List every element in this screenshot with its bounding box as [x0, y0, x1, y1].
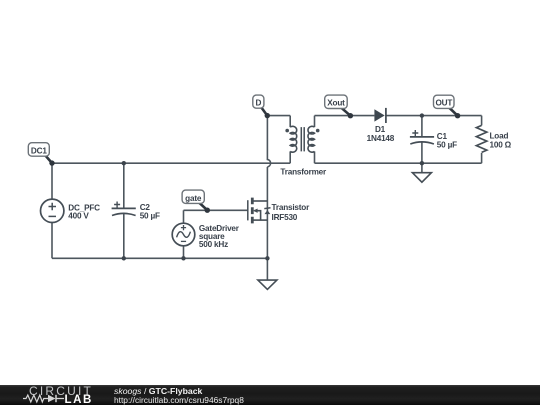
- transistor body diode cathode bar: [264, 207, 270, 210]
- wire GateDriver top lead: [183, 210, 185, 223]
- wire drain net lower: [266, 167, 268, 258]
- value label DC_PFC 400 V: [68, 204, 100, 221]
- diode D1 triangle: [374, 109, 384, 121]
- transistor Q IRF530 NMOS: [248, 198, 268, 224]
- wire ground stem left: [266, 258, 268, 280]
- wire Xout net: [315, 115, 375, 117]
- wire secondary top lead: [314, 116, 316, 128]
- capacitor C1: [410, 130, 434, 144]
- capacitor C2: [112, 202, 136, 216]
- svg-text:100 Ω: 100 Ω: [490, 140, 512, 149]
- wire GateDriver bottom lead: [183, 246, 185, 259]
- wire DC_PFC top lead: [51, 163, 53, 199]
- svg-text:IRF530: IRF530: [272, 213, 298, 222]
- value label C2 50 uF: [140, 203, 160, 221]
- wire Load top lead: [481, 116, 483, 126]
- transistor body diode triangle: [265, 210, 271, 214]
- wire C1 top lead: [421, 116, 423, 137]
- svg-text:Transformer: Transformer: [280, 167, 327, 176]
- transformer primary coil: [290, 126, 297, 152]
- node OUT: [434, 95, 461, 118]
- footer bar: [0, 385, 540, 405]
- wire drain net upper with hop: [267, 116, 270, 167]
- footer logo CIRCUIT: [29, 384, 93, 398]
- footer url: [114, 395, 244, 405]
- wire ground stem right: [421, 163, 423, 173]
- transformer core: [301, 127, 304, 151]
- svg-text:D: D: [256, 98, 262, 107]
- svg-text:DC1: DC1: [31, 146, 47, 155]
- wire secondary bottom rail: [315, 162, 482, 164]
- node gate: [182, 190, 210, 213]
- svg-text:gate: gate: [185, 194, 202, 203]
- node DC1: [28, 143, 54, 166]
- wire DC_PFC bottom lead: [51, 223, 53, 259]
- svg-text:D1: D1: [375, 125, 386, 134]
- svg-text:1N4148: 1N4148: [367, 134, 395, 143]
- value label GateDriver square 500 kHz: [199, 224, 240, 249]
- wire primary top lead: [289, 116, 291, 128]
- svg-text:50 µF: 50 µF: [437, 141, 457, 150]
- ground right: [412, 173, 431, 183]
- transformer primary phase dot: [285, 129, 289, 133]
- wire node D to primary top: [267, 115, 290, 117]
- value label D1 1N4148: [367, 125, 395, 143]
- footer logo squiggle: [23, 393, 65, 404]
- transformer secondary phase dot: [316, 129, 320, 133]
- diode D1 cathode bar: [385, 108, 387, 123]
- wire bottom ground rail: [52, 257, 267, 259]
- footer logo LAB: [65, 394, 93, 405]
- junction C2 bottom: [122, 256, 126, 260]
- svg-text:Load: Load: [490, 132, 509, 141]
- node D: [253, 95, 270, 118]
- value label Load 100 Ohm: [490, 132, 512, 150]
- wire C2 top lead: [123, 163, 125, 208]
- junction GateDriver bottom: [181, 256, 185, 260]
- junction C2 top: [122, 161, 126, 165]
- wire OUT net: [386, 115, 482, 117]
- svg-text:400 V: 400 V: [68, 212, 89, 221]
- wire C2 bottom lead: [123, 213, 125, 258]
- svg-text:Transistor: Transistor: [272, 203, 311, 212]
- wire C1 bottom lead: [421, 142, 423, 163]
- junction C1 bottom: [420, 161, 424, 165]
- node Xout: [325, 95, 353, 118]
- svg-text:Xout: Xout: [327, 99, 345, 108]
- footer title skoogs / GTC-Flyback: [114, 386, 202, 396]
- wire gate net: [184, 209, 248, 211]
- ground left: [258, 280, 277, 289]
- wire primary bottom lead: [289, 151, 291, 163]
- junction source ground: [265, 256, 269, 260]
- value label C1 50 uF: [437, 132, 457, 149]
- value label Transistor IRF530: [272, 203, 311, 222]
- svg-text:50 µF: 50 µF: [140, 211, 160, 220]
- wire secondary bottom lead: [314, 151, 316, 163]
- transformer secondary coil: [308, 126, 315, 152]
- wire top rail DC1 net: [52, 162, 290, 164]
- svg-text:500 kHz: 500 kHz: [199, 240, 228, 249]
- resistor Load zigzag: [476, 125, 486, 152]
- source GateDriver: [172, 223, 195, 246]
- wire Load bottom lead: [481, 153, 483, 163]
- junction C1 top: [420, 113, 424, 117]
- transistor body arrow: [253, 209, 258, 213]
- svg-text:OUT: OUT: [435, 99, 452, 108]
- voltage source DC_PFC: [41, 199, 64, 222]
